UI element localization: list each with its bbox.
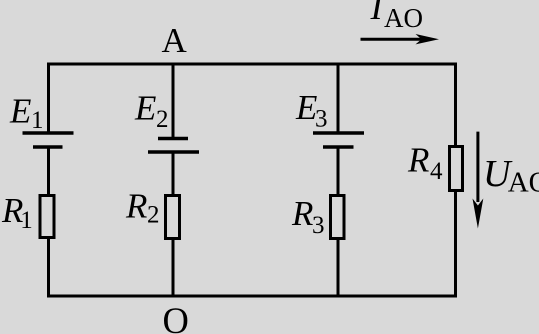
svg-text:2: 2 — [156, 106, 169, 133]
svg-text:1: 1 — [20, 207, 33, 234]
svg-text:3: 3 — [315, 105, 328, 132]
svg-text:4: 4 — [430, 158, 443, 185]
svg-text:AO: AO — [508, 166, 539, 198]
svg-text:R: R — [407, 141, 429, 180]
svg-text:O: O — [163, 300, 189, 334]
svg-text:R: R — [125, 187, 147, 226]
svg-text:1: 1 — [31, 107, 44, 134]
svg-text:3: 3 — [312, 212, 325, 239]
svg-text:2: 2 — [147, 202, 160, 229]
svg-text:E: E — [134, 89, 156, 128]
svg-text:AO: AO — [384, 3, 423, 33]
svg-text:A: A — [162, 21, 188, 60]
svg-text:R: R — [291, 194, 313, 233]
svg-text:I: I — [370, 0, 385, 27]
svg-text:E: E — [9, 92, 31, 131]
